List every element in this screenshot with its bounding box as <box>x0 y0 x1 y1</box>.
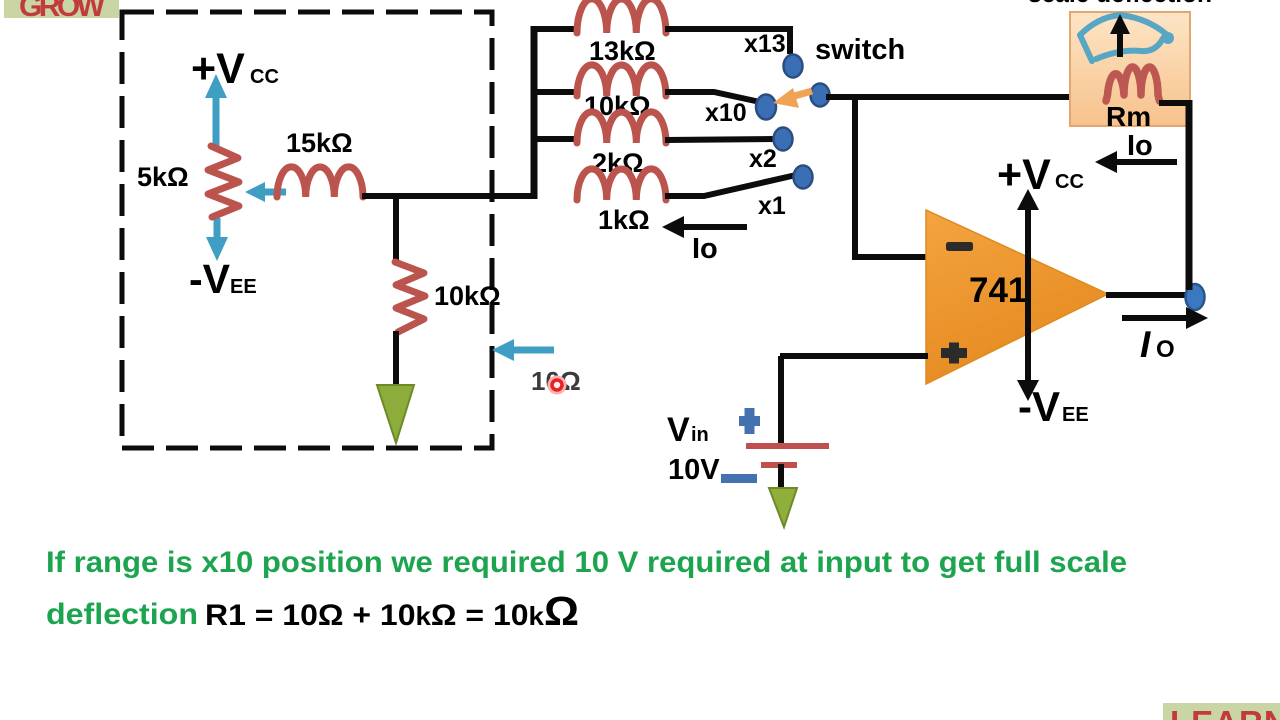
fan end dot <box>1162 32 1174 44</box>
wire 10k to ground <box>393 331 399 390</box>
svg-text:EE: EE <box>1062 404 1089 426</box>
+ input wire from battery <box>780 353 928 359</box>
svg-text:x2: x2 <box>749 145 777 173</box>
svg-text:x10: x10 <box>705 99 747 127</box>
feedback wire down to inverting input <box>855 97 928 257</box>
svg-text:Io: Io <box>1127 130 1153 162</box>
svg-text:GROW: GROW <box>19 0 106 23</box>
meter box Rm <box>1070 12 1190 126</box>
battery plate - <box>761 462 797 468</box>
svg-text:deflection: deflection <box>46 598 198 631</box>
Io output arrow (points right) <box>1122 307 1208 329</box>
svg-text:+V: +V <box>997 151 1051 199</box>
output node dot <box>1186 284 1205 310</box>
Vcc/Vee arrow through op-amp <box>1017 189 1039 401</box>
svg-text:scale deflection: scale deflection <box>1028 0 1212 8</box>
svg-text:in: in <box>691 424 709 446</box>
battery top wire <box>778 356 784 446</box>
output wire <box>1106 292 1192 298</box>
plus sign (blue) <box>739 408 760 434</box>
op-amp U1 741 <box>926 210 1108 384</box>
svg-text:x1: x1 <box>758 192 786 220</box>
ground (green arrow) <box>377 385 414 443</box>
blue arrow pointing at dashed box edge <box>492 339 554 361</box>
svg-text:If range is x10 position we re: If range is x10 position we required 10 … <box>46 546 1127 579</box>
svg-text:15kΩ: 15kΩ <box>286 128 353 158</box>
orange selector arrow <box>773 88 812 108</box>
svg-text:5kΩ: 5kΩ <box>137 162 189 192</box>
bus stub row3 <box>531 136 578 142</box>
svg-text:V: V <box>667 411 690 449</box>
Io meter arrow (points left) <box>1095 151 1177 173</box>
wire row3 to x2 contact <box>665 139 775 140</box>
contact dot x1 <box>794 166 813 189</box>
wire 15k to bank bus <box>362 193 534 199</box>
svg-text:13kΩ: 13kΩ <box>589 36 656 66</box>
contact dot x10 <box>756 95 776 120</box>
svg-text:switch: switch <box>815 34 905 66</box>
bank bus vertical <box>531 26 538 199</box>
svg-text:LEARN: LEARN <box>1170 704 1280 720</box>
op-amp plus symbol <box>941 343 967 364</box>
LEARN logo box (bottom-right, clipped) <box>1163 703 1280 720</box>
wire junction down to 10k <box>393 196 399 263</box>
svg-text:-V: -V <box>1018 383 1060 430</box>
potentiometer 5k zigzag <box>208 146 239 217</box>
wire down from Rm to output node <box>1186 100 1193 290</box>
svg-text:CC: CC <box>1055 171 1084 193</box>
arrow to -VEE <box>206 218 228 261</box>
contact dot x2 <box>774 128 793 151</box>
GROW logo box (top-left, clipped) <box>4 0 119 18</box>
svg-text:Io: Io <box>692 233 718 265</box>
battery plate + <box>746 443 829 449</box>
svg-text:R1 = 10Ω + 10kΩ = 10kΩ: R1 = 10Ω + 10kΩ = 10kΩ <box>205 588 579 634</box>
meter resistor Rm <box>1106 67 1160 101</box>
svg-text:Rm: Rm <box>1106 101 1151 132</box>
svg-text:10V: 10V <box>668 454 720 486</box>
bus stub row1 <box>531 26 578 32</box>
op-amp minus symbol <box>946 242 973 251</box>
svg-text:EE: EE <box>230 276 257 298</box>
Io arrow under 1k (points left) <box>662 216 747 238</box>
resistor 10k vertical <box>395 262 425 332</box>
dashed box <box>122 12 492 448</box>
laser pointer dot <box>550 378 565 393</box>
svg-text:10kΩ: 10kΩ <box>434 281 501 311</box>
resistor 10k bank <box>577 65 666 96</box>
minus sign (blue) <box>721 474 757 483</box>
svg-text:741: 741 <box>969 271 1027 310</box>
wiper arrow (blue, points left at pot) <box>245 182 286 202</box>
wire row4 to x1 contact <box>665 175 796 196</box>
resistor 1k <box>577 169 666 200</box>
battery middle stub <box>778 464 784 492</box>
resistor 2k <box>577 112 666 143</box>
contact dot x13 <box>784 55 803 78</box>
resistor 15k <box>277 167 363 197</box>
meter scale fan (blue) <box>1080 15 1166 61</box>
svg-text:O: O <box>1156 336 1175 363</box>
wire Rm right <box>1159 100 1190 106</box>
bus stub row2 <box>531 89 578 95</box>
switch pole dot <box>811 84 830 107</box>
svg-text:I: I <box>1140 324 1151 365</box>
meter needle arrow <box>1110 14 1130 57</box>
wire pole to Rm <box>826 94 1106 100</box>
svg-text:1kΩ: 1kΩ <box>598 205 650 235</box>
resistor 13k (top, clipped) <box>577 0 666 33</box>
svg-text:x13: x13 <box>744 30 786 58</box>
svg-text:CC: CC <box>250 66 279 88</box>
wire row2 to x10 contact <box>665 92 760 102</box>
wire row1 to x13 contact <box>665 29 790 54</box>
arrow to +Vcc <box>205 74 227 148</box>
svg-text:-V: -V <box>189 256 231 302</box>
battery ground (green arrow) <box>769 488 797 527</box>
